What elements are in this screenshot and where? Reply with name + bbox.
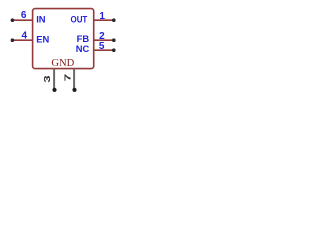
pin 2 wire [94,39,114,41]
pin 3 junction dot [52,88,56,92]
pin 5 wire [94,49,114,51]
pin 4 wire [12,39,33,41]
pin 4 end dot [11,38,15,42]
svg-text:6: 6 [21,10,27,21]
pin 7 junction dot [72,88,76,92]
svg-text:1: 1 [99,11,105,22]
pin 1 wire [94,19,114,21]
symbol body U1 [33,9,94,69]
pin 7 wire [73,69,75,90]
svg-text:4: 4 [22,31,28,42]
svg-text:EN: EN [36,33,49,44]
pin 6 end dot [11,18,15,22]
svg-text:7: 7 [64,74,73,82]
svg-text:3: 3 [43,74,52,82]
pin 3 wire [53,69,55,90]
pin 2 end dot [112,38,116,42]
pin 6 wire [12,19,33,21]
svg-text:GND: GND [51,58,74,69]
svg-text:5: 5 [99,41,105,52]
svg-text:NC: NC [76,43,90,54]
pin 5 end dot [112,48,116,52]
pin 1 end dot [112,18,116,22]
svg-text:OUT: OUT [71,13,88,24]
svg-text:IN: IN [36,13,46,24]
